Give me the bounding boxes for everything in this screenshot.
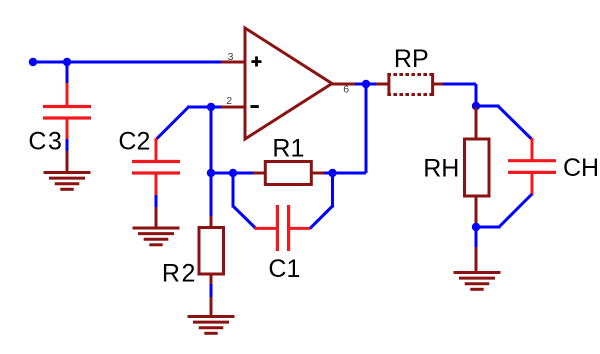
svg-text:6: 6 — [343, 84, 349, 96]
wire top rail to non-inverting input — [33, 61, 221, 64]
node C3 junction dot — [63, 58, 71, 66]
capacitor C1 — [255, 205, 311, 251]
svg-text:RH: RH — [423, 155, 459, 183]
label CH — [563, 154, 599, 182]
resistor RP (dashed) — [376, 73, 444, 96]
wire RP to RH — [443, 84, 476, 106]
ground below R2 — [188, 297, 235, 333]
wire R2 to ground — [210, 284, 213, 298]
pin 3 stub — [221, 61, 245, 64]
label C1 — [268, 255, 300, 283]
wire feedback horizontal — [333, 172, 367, 175]
wire C3 to ground — [66, 139, 69, 152]
label RP — [394, 45, 429, 73]
node R2 top dot — [207, 169, 215, 177]
resistor RH — [465, 106, 490, 227]
node RH top dot — [472, 102, 480, 110]
node pin2 junction dot — [207, 103, 215, 111]
wire RH node to CH top — [476, 106, 532, 140]
wire C3 stem upper — [66, 62, 69, 84]
label C2 — [118, 127, 150, 155]
svg-text:RP: RP — [394, 45, 429, 73]
svg-text:C3: C3 — [28, 127, 63, 155]
svg-text:R1: R1 — [272, 135, 304, 163]
ground below C3 — [44, 151, 91, 189]
svg-text:3: 3 — [228, 51, 234, 63]
label RH — [423, 155, 459, 183]
wire diagonal to C2 — [156, 107, 189, 140]
svg-text:C2: C2 — [118, 127, 150, 155]
node R1 right dot — [328, 169, 336, 177]
wire R1 right — [324, 172, 333, 175]
pin 2 stub — [221, 106, 245, 109]
svg-text:CH: CH — [563, 154, 599, 182]
capacitor C3 — [43, 83, 91, 140]
svg-text:C1: C1 — [268, 255, 300, 283]
resistor R1 — [253, 162, 325, 185]
ground below C2 — [133, 207, 180, 245]
resistor R2 — [199, 216, 224, 285]
wire RH to ground — [475, 227, 478, 248]
svg-text:2: 2 — [226, 95, 232, 107]
wire output — [355, 83, 376, 86]
capacitor CH — [508, 138, 556, 196]
pin number 3 — [228, 51, 234, 63]
wire C1 left branch — [233, 173, 256, 228]
label R1 — [272, 135, 304, 163]
wire CH bottom to RH node — [476, 194, 532, 227]
node input terminal dot — [29, 58, 37, 66]
wire R2 stem — [210, 173, 213, 217]
wire C2 to ground — [155, 195, 158, 208]
pin number 6 — [343, 84, 349, 96]
node R1 left dot — [229, 169, 237, 177]
node RH bottom dot — [472, 223, 480, 231]
node output junction dot — [362, 80, 370, 88]
op-amp U1 — [245, 28, 332, 139]
capacitor C2 — [132, 138, 180, 196]
pin 6 stub — [331, 83, 356, 86]
label R2 — [162, 260, 197, 288]
wire feedback vertical — [365, 84, 368, 173]
wire R1 left — [233, 172, 254, 175]
svg-text:R2: R2 — [162, 260, 197, 288]
wire pin2 down to feedback node — [210, 107, 213, 173]
pin number 2 — [226, 95, 232, 107]
label C3 — [28, 127, 63, 155]
wire between feedback dots — [211, 172, 233, 175]
ground below RH — [454, 247, 501, 289]
wire C1 right branch — [310, 173, 333, 228]
wire inverting input horizontal — [187, 106, 221, 109]
